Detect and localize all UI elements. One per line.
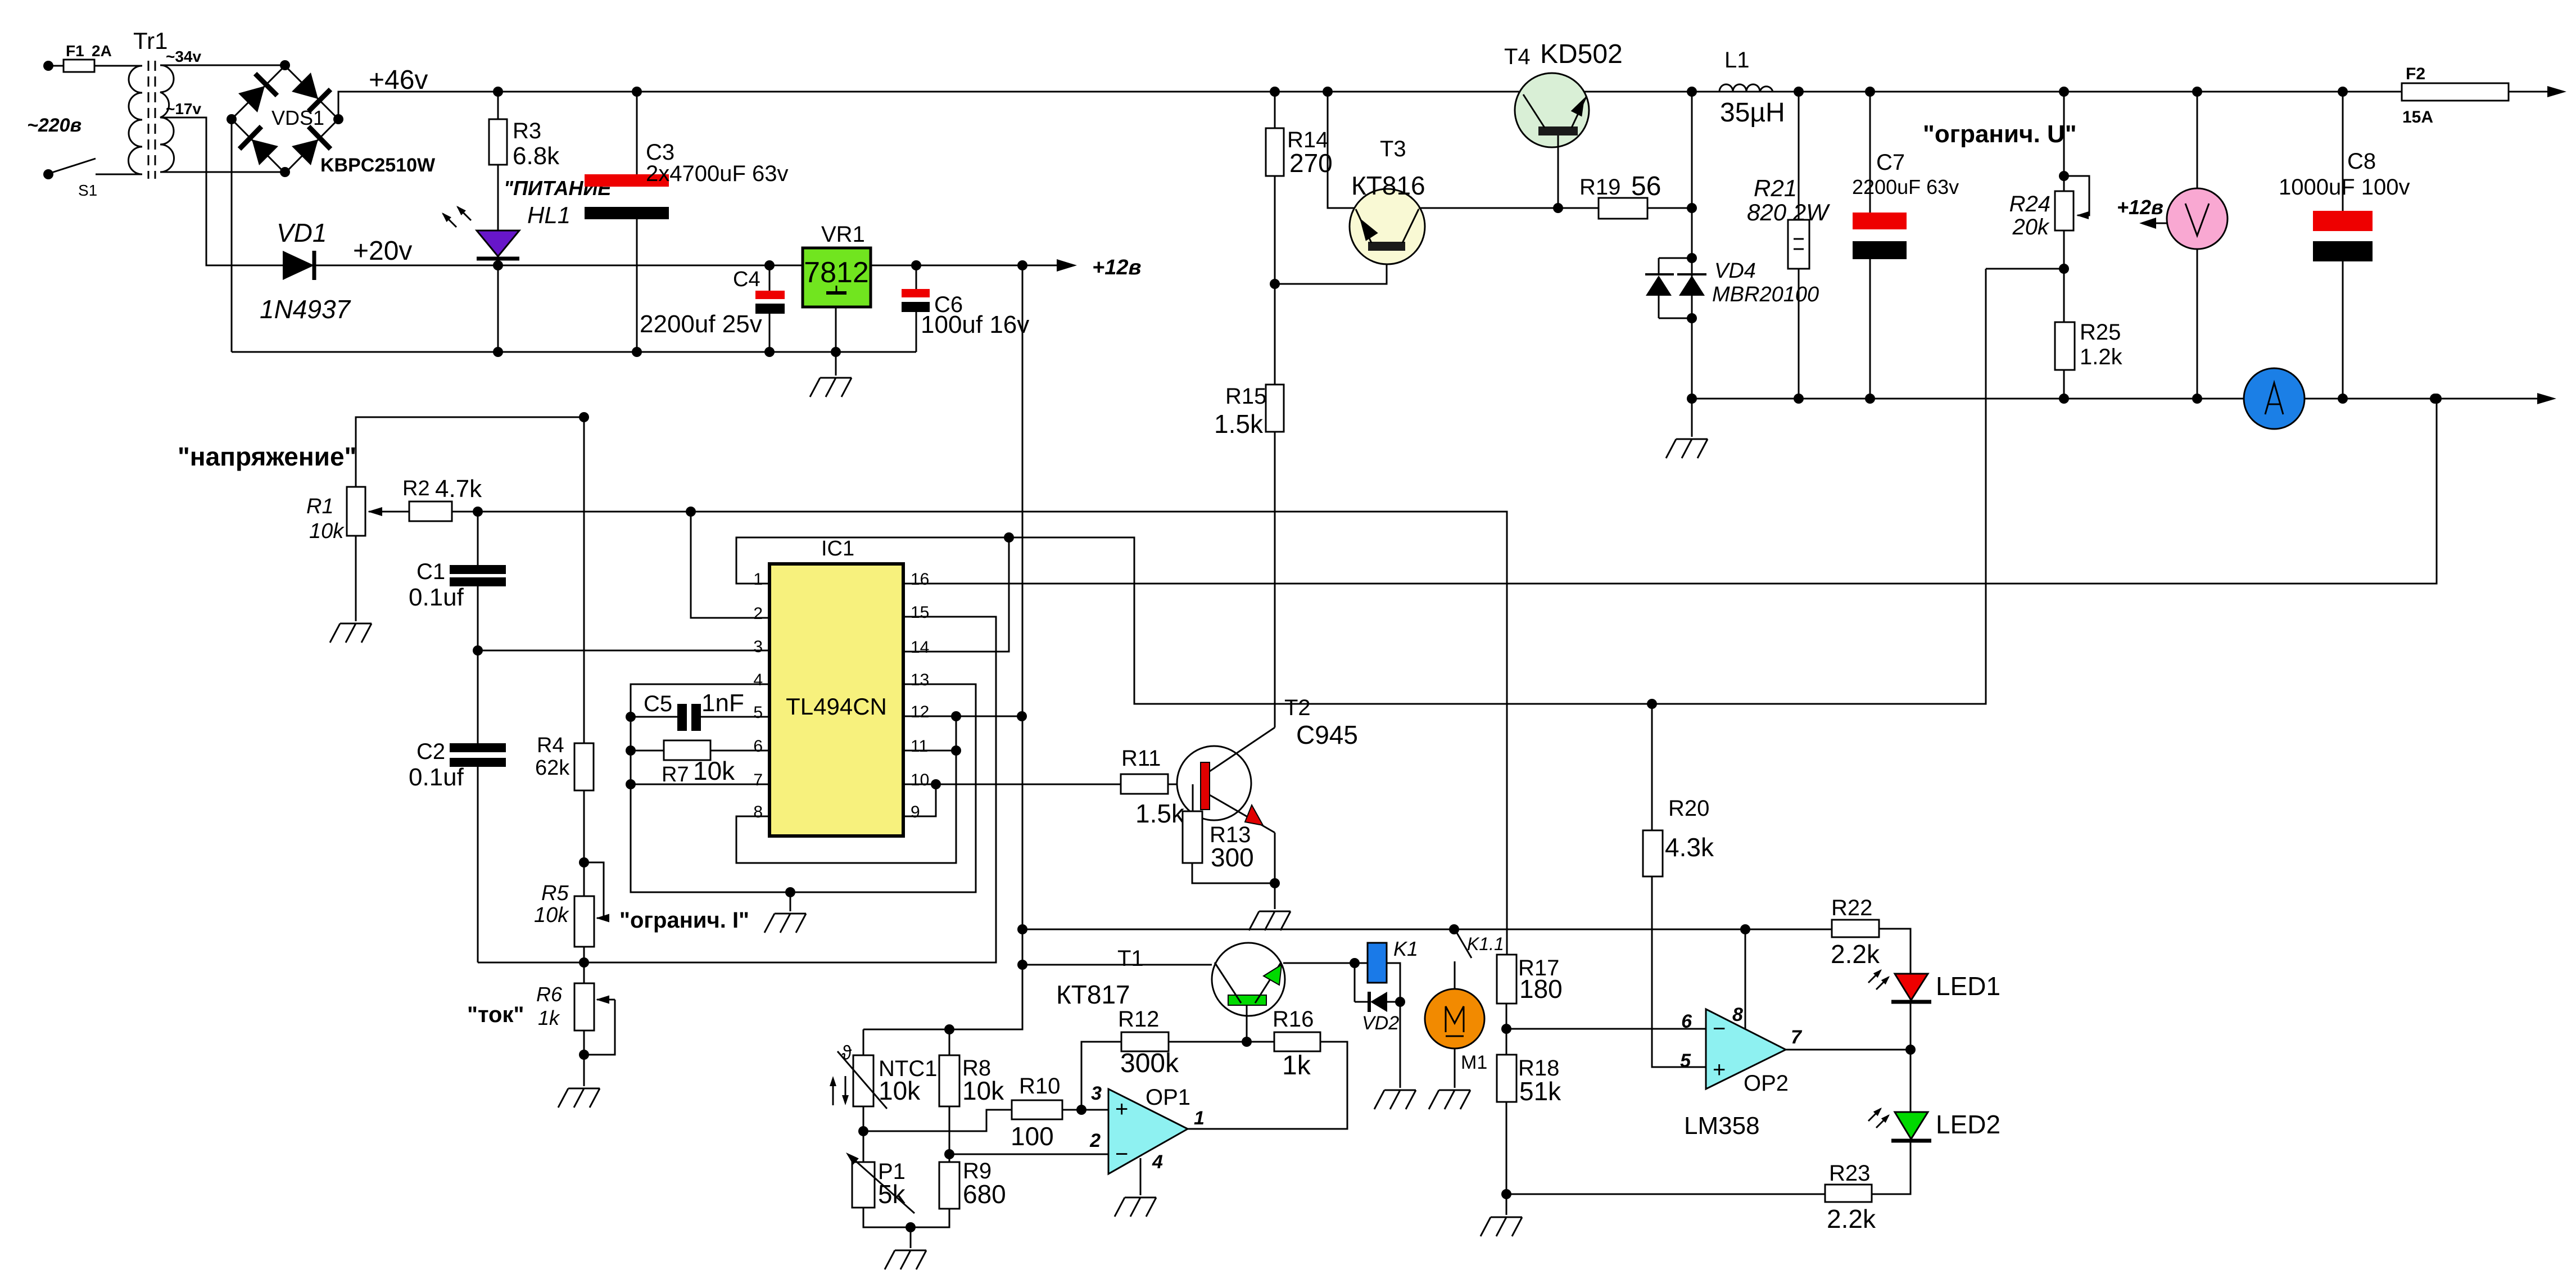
node T1 base junction	[1242, 1037, 1252, 1047]
potentiometer P1 5k	[852, 1162, 875, 1208]
wire op supply line	[1022, 929, 1832, 930]
node +12 bus top	[1017, 260, 1027, 270]
wire P1 bottom	[863, 1208, 949, 1227]
svg-text:300k: 300k	[1120, 1049, 1179, 1078]
node switch node rail	[1687, 87, 1697, 97]
svg-text:Tr1: Tr1	[133, 28, 167, 54]
svg-text:C4: C4	[733, 268, 760, 291]
svg-text:F1: F1	[66, 42, 84, 60]
wire R18 bottom	[1506, 1102, 1507, 1215]
svg-text:2x4700uF 63v: 2x4700uF 63v	[646, 161, 789, 186]
ground R1	[330, 623, 372, 643]
wire R1 top to R4 top	[356, 417, 584, 743]
ground T2	[1274, 883, 1276, 909]
wire V meter bottom	[2197, 249, 2198, 399]
svg-text:КТ816: КТ816	[1351, 171, 1425, 200]
wire NTC junction to R10	[863, 1110, 1012, 1131]
wire minus rail	[1692, 398, 2541, 400]
resistor R4 62k	[574, 743, 594, 790]
svg-text:+20v: +20v	[353, 236, 412, 266]
node VD2 right junction	[1395, 997, 1405, 1007]
wire rail to F2 and output arrow	[1692, 91, 2402, 93]
wire OP1 pin4 ground	[1140, 1158, 1142, 1195]
wire HL1 cathode to +20v line and common	[497, 259, 499, 352]
node VR1 gnd common	[831, 347, 841, 357]
svg-text:1.2k: 1.2k	[2080, 345, 2123, 369]
node mains input terminal top	[43, 61, 53, 71]
wire R23 to R18 bottom	[1506, 1194, 1825, 1195]
resistor R13 300	[1192, 784, 1194, 811]
svg-text:10: 10	[911, 771, 929, 789]
svg-text:TL494CN: TL494CN	[786, 693, 887, 720]
wire VD1 to VR1 input (+20v line)	[233, 265, 283, 266]
svg-text:C2: C2	[416, 739, 445, 764]
svg-text:14: 14	[911, 638, 929, 657]
fuse F1	[64, 60, 94, 72]
svg-text:R4: R4	[537, 734, 564, 757]
transistor T1 KT817	[1056, 943, 1285, 1016]
capacitor C4 2200uf 25v	[769, 265, 771, 291]
relay coil K1	[1368, 943, 1387, 983]
wire pin4 to box left edge	[631, 684, 976, 892]
svg-text:"огранич. I": "огранич. I"	[619, 908, 749, 933]
transistor T2 C945	[1177, 695, 1358, 843]
svg-text:13: 13	[911, 671, 929, 689]
wire R12 to T1 base	[1169, 1041, 1274, 1043]
bridge rectifier VDS1 KBPC2510W	[232, 66, 436, 176]
wire secondary 17v tap	[160, 117, 233, 265]
wire R2 right to voltage feedback line	[452, 511, 478, 513]
node +12 branch opamp supply	[1017, 924, 1027, 934]
resistor R17 180	[1497, 955, 1516, 1004]
node pin6 tap	[626, 745, 636, 756]
node C1 bottom pin3 junction	[473, 645, 483, 656]
wire R17 R18 junction	[1506, 1004, 1507, 1055]
svg-text:−: −	[1713, 1016, 1726, 1041]
transistor T4 KD502	[1504, 39, 1623, 147]
wire R10 to OP1 pin3	[1062, 1109, 1108, 1111]
wire LED1 to output node	[1910, 1002, 1912, 1050]
wire +12v bus vertical	[877, 265, 1022, 1029]
svg-text:C945: C945	[1296, 720, 1358, 749]
node R17 R18 junction	[1501, 1024, 1511, 1034]
svg-text:4: 4	[1152, 1151, 1163, 1173]
wire divider to OP2 pin6	[1506, 1028, 1706, 1030]
svg-text:R2: R2	[402, 477, 430, 500]
ammeter A	[2244, 368, 2305, 429]
wire R5 wiper loop	[584, 862, 604, 918]
svg-text:8: 8	[753, 803, 763, 821]
svg-text:"напряжение": "напряжение"	[178, 442, 356, 471]
wire R13 bottom to T2 emitter	[1192, 863, 1275, 883]
wire output node to LED2	[1910, 1050, 1912, 1112]
svg-text:R5: R5	[541, 882, 569, 905]
wire R16 to OP1 output	[1188, 1042, 1347, 1129]
svg-text:4.3k: 4.3k	[1665, 833, 1714, 862]
node T2 emitter junction	[1270, 878, 1280, 888]
node T4 base node	[1553, 203, 1563, 213]
ground OP1	[1115, 1197, 1156, 1217]
wire NTC R8 top feed	[863, 1029, 1022, 1031]
capacitor C6 100uf 16v	[916, 265, 917, 289]
svg-text:1N4937: 1N4937	[260, 295, 351, 324]
svg-text:4.7k: 4.7k	[435, 475, 482, 503]
svg-text:2: 2	[753, 604, 763, 623]
capacitor C7 2200uF 63v	[1869, 92, 1871, 213]
wire NTC1 bottom	[863, 1106, 864, 1162]
wire R22 to LED1	[1879, 929, 1911, 974]
wire R6 wiper loop	[584, 1000, 615, 1055]
resistor R15 1.5k	[1266, 385, 1284, 432]
svg-text:R23: R23	[1829, 1161, 1870, 1186]
svg-text:2.2k: 2.2k	[1827, 1204, 1876, 1233]
wire T3 emitter riser	[1328, 92, 1355, 208]
resistor R9 680	[939, 1162, 959, 1209]
svg-text:16: 16	[911, 570, 929, 589]
capacitor C8 1000uF 100v	[2342, 92, 2344, 211]
node C8 minus	[2338, 394, 2348, 404]
wire pin1 pin14 feedback loop via IC1 box	[736, 269, 1986, 704]
resistor R25 1.2k	[2055, 322, 2075, 370]
wire mains top to fuse	[48, 65, 64, 67]
node HL1 +20v junction	[493, 260, 503, 270]
wire R4 to R5	[583, 790, 585, 896]
ground IC1	[790, 892, 791, 911]
diode VD2	[1354, 963, 1356, 1002]
node pin10 tie	[931, 779, 941, 789]
svg-text:R25: R25	[2080, 320, 2121, 345]
svg-text:KBPC2510W: KBPC2510W	[320, 155, 436, 176]
node rail R14 top	[1270, 87, 1280, 97]
svg-text:T4: T4	[1504, 44, 1531, 69]
svg-text:T2: T2	[1284, 695, 1311, 720]
node R5 tap top	[579, 857, 589, 867]
node rail C7 top	[1865, 87, 1875, 97]
node R24 wiper tie	[2059, 171, 2069, 181]
wire VD2 to ground	[1400, 1002, 1401, 1088]
wire T4 emitter to output node	[1584, 91, 1692, 93]
resistor R18 51k	[1497, 1055, 1516, 1102]
capacitor C3 2x4700uF 63v	[636, 92, 638, 174]
svg-text:KD502: KD502	[1540, 39, 1623, 69]
svg-text:10k: 10k	[962, 1076, 1004, 1105]
ground R18	[1481, 1217, 1522, 1236]
ground VR1	[810, 378, 852, 397]
op-amp OP1	[1108, 1089, 1188, 1174]
svg-text:+46v: +46v	[369, 65, 428, 95]
LED HL1	[497, 165, 499, 231]
node rail R24 top	[2059, 87, 2069, 97]
svg-text:9: 9	[911, 803, 920, 821]
svg-text:7: 7	[1791, 1027, 1803, 1048]
wire pin11	[903, 750, 956, 752]
wire R1 bottom to ground	[355, 536, 357, 621]
wire V meter +12 arrow	[2143, 223, 2167, 224]
wire C2 bottom to tok node	[478, 962, 584, 964]
svg-text:1000uF 100v: 1000uF 100v	[2279, 175, 2410, 200]
svg-text:0.1uf: 0.1uf	[409, 763, 464, 791]
svg-text:6: 6	[753, 737, 763, 756]
svg-text:R11: R11	[1121, 746, 1161, 771]
node minus rail ground	[1687, 394, 1697, 404]
svg-text:VD2: VD2	[1362, 1013, 1399, 1034]
svg-text:11: 11	[911, 737, 928, 756]
svg-text:R21: R21	[1754, 175, 1797, 201]
svg-text:"огранич. U": "огранич. U"	[1923, 120, 2077, 148]
svg-text:10k: 10k	[309, 519, 345, 543]
svg-text:R16: R16	[1273, 1007, 1314, 1032]
wire R20 bottom to OP2 pin5	[1652, 876, 1706, 1067]
svg-text:−: −	[1115, 1142, 1128, 1167]
op-amp OP2 LM358	[1706, 1009, 1786, 1089]
svg-text:0.1uf: 0.1uf	[409, 584, 464, 611]
potentiometer R24 20k	[2055, 191, 2074, 231]
wire T1 collector line	[1022, 964, 1212, 966]
wire pin12 to +12 bus	[903, 716, 1022, 717]
svg-text:180: 180	[1519, 974, 1563, 1004]
svg-text:1.5k: 1.5k	[1214, 409, 1264, 439]
wire M1 to ground	[1454, 1049, 1456, 1088]
svg-text:R22: R22	[1831, 896, 1872, 920]
svg-text:K1: K1	[1393, 937, 1418, 960]
svg-text:10k: 10k	[879, 1076, 921, 1105]
svg-text:S1: S1	[78, 182, 97, 199]
wire T2 emitter to ground	[1274, 843, 1276, 883]
node T2 base junction	[1188, 779, 1198, 789]
svg-text:R19: R19	[1579, 175, 1620, 200]
svg-text:3: 3	[1091, 1083, 1102, 1104]
diode VD4 MBR20100 dual schottky	[1645, 253, 1819, 318]
potentiometer R5 10k	[574, 896, 594, 947]
node C4 common	[764, 347, 775, 357]
wire bridge left vertex down to common rail	[231, 119, 233, 352]
resistor R23 2.2k	[1825, 1185, 1872, 1202]
svg-text:15: 15	[911, 603, 929, 622]
svg-text:VR1: VR1	[821, 222, 865, 247]
diode VD1 1N4937	[283, 251, 314, 280]
svg-text:R6: R6	[536, 983, 563, 1006]
wire switch to transformer primary bottom	[96, 174, 142, 175]
wire voltage feedback line to R17 column	[478, 512, 1507, 955]
transistor T3 KT816	[1350, 137, 1425, 264]
node pin11 tie	[951, 745, 961, 756]
node pin16 minus rail	[2432, 394, 2442, 404]
node C7 minus	[1865, 394, 1875, 404]
svg-text:100: 100	[1011, 1122, 1054, 1151]
resistor R20 4.3k	[1651, 704, 1653, 830]
svg-text:L1: L1	[1724, 48, 1750, 73]
svg-text:R24: R24	[2009, 192, 2050, 216]
svg-text:C1: C1	[416, 559, 445, 584]
svg-text:1k: 1k	[538, 1006, 560, 1029]
resistor R21 820 2W	[1798, 92, 1800, 220]
node R8 top tap	[944, 1024, 954, 1034]
svg-text:MBR20100: MBR20100	[1712, 283, 1819, 306]
svg-text:2200uF 63v: 2200uF 63v	[1852, 175, 1959, 198]
svg-text:T3: T3	[1380, 137, 1406, 161]
wire R24 wiper loop	[2064, 176, 2089, 215]
node bridge right	[333, 114, 343, 124]
node bridge left	[227, 114, 237, 124]
resistor R7 10k	[631, 750, 664, 752]
wire R14 to R15	[1274, 176, 1276, 385]
svg-text:~34v: ~34v	[166, 48, 201, 65]
svg-text:4: 4	[753, 671, 763, 689]
wire VD4 to minus rail	[1691, 258, 1693, 399]
wire T3 collector to T4 base node	[1419, 207, 1558, 209]
motor M1	[1454, 961, 1456, 989]
svg-text:LED1: LED1	[1936, 971, 2000, 1001]
svg-text:6.8k: 6.8k	[513, 142, 560, 170]
svg-text:10k: 10k	[693, 756, 735, 785]
wire secondary bottom to bridge bottom	[160, 171, 285, 173]
node VD4 bottom	[1687, 313, 1697, 323]
wire T1 base stem	[1246, 1005, 1248, 1042]
wire K1 right	[1387, 963, 1400, 1002]
wire V meter top	[2197, 92, 2198, 188]
wire secondary 34v to bridge top	[160, 65, 285, 66]
svg-text:35µH: 35µH	[1720, 98, 1785, 128]
wire pin15 to current set node	[584, 617, 996, 962]
node C6 top	[911, 260, 921, 270]
svg-text:270: 270	[1289, 148, 1333, 178]
node pin14 top	[1004, 532, 1014, 543]
wire VR1 ground to common	[835, 307, 837, 376]
node pin5 tap	[626, 712, 636, 722]
node R8 R9 junction	[944, 1149, 954, 1159]
node pin7 tap	[626, 779, 636, 789]
svg-text:+: +	[1713, 1057, 1726, 1082]
node T3 base junction	[1270, 279, 1280, 289]
wire pin10 to R11	[903, 784, 1121, 785]
op-amp U IC1 TL494CN chip body	[769, 564, 903, 836]
switch S1	[52, 159, 96, 173]
svg-text:VD1: VD1	[277, 218, 327, 247]
node R25 minus	[2059, 394, 2069, 404]
capacitor C2 0.1uf	[477, 650, 479, 743]
wire LED2 to R23 line	[1872, 1141, 1911, 1194]
svg-text:K1.1: K1.1	[1467, 934, 1504, 954]
svg-text:+12в: +12в	[2117, 196, 2163, 219]
node R1 R4 net corner	[579, 412, 589, 422]
wire U-limit feedback left	[1986, 268, 2064, 270]
wire pin3 line	[478, 650, 769, 652]
resistor R8 10k	[949, 1029, 950, 1055]
wire OP2 output	[1786, 1049, 1911, 1051]
wire pin2 riser	[691, 512, 769, 618]
svg-text:1.5k: 1.5k	[1135, 799, 1185, 828]
svg-text:M1: M1	[1461, 1052, 1487, 1073]
wire pin14 riser	[903, 537, 1009, 652]
svg-text:R1: R1	[306, 495, 334, 518]
resistor R16 1k	[1274, 1032, 1320, 1051]
node R19 right	[1687, 203, 1697, 213]
node OP2 pin8 tap	[1740, 924, 1750, 934]
LED LED2 green	[1895, 1112, 1928, 1139]
wire R6 bottom	[583, 1031, 585, 1086]
svg-text:820 2W: 820 2W	[1747, 199, 1830, 225]
svg-text:R12: R12	[1118, 1007, 1159, 1032]
resistor R22 2.2k	[1832, 920, 1879, 937]
node C4 top	[764, 260, 775, 270]
node IC ground tap	[785, 887, 795, 897]
wire R12 riser	[1081, 1042, 1121, 1110]
svg-text:~220в: ~220в	[27, 115, 82, 136]
wire common rail top-left block	[232, 351, 916, 353]
svg-text:HL1: HL1	[527, 202, 571, 228]
ground R6	[558, 1088, 600, 1108]
svg-text:1k: 1k	[1282, 1051, 1311, 1081]
svg-text:5: 5	[1680, 1050, 1691, 1072]
node R21 minus	[1794, 394, 1804, 404]
wire switch node vertical	[1691, 92, 1693, 269]
svg-text:20k: 20k	[2012, 215, 2050, 239]
wire pin16 current sense line	[903, 399, 2437, 584]
node rail C8 top	[2338, 87, 2348, 97]
inductor L1 35uH	[1719, 84, 1773, 92]
svg-text:+: +	[1115, 1097, 1128, 1122]
svg-text:62k: 62k	[535, 756, 570, 780]
svg-text:C5: C5	[644, 692, 672, 716]
node R12 tap	[1076, 1105, 1086, 1115]
thermistor NTC1 10k	[863, 1029, 864, 1055]
svg-text:56: 56	[1631, 171, 1661, 201]
wire R8 R9 junction to OP1 pin2	[949, 1154, 1108, 1155]
svg-text:VDS1: VDS1	[271, 106, 324, 129]
node +12 branch T1 collector	[1017, 960, 1027, 970]
svg-text:7812: 7812	[804, 256, 869, 289]
svg-text:5: 5	[753, 703, 763, 722]
svg-text:6: 6	[1681, 1011, 1692, 1032]
wire R24 top	[2063, 92, 2065, 191]
svg-text:IC1: IC1	[821, 537, 854, 561]
svg-text:F2: F2	[2406, 65, 2425, 83]
svg-text:3: 3	[753, 638, 763, 656]
svg-text:2200uf 25v: 2200uf 25v	[640, 310, 762, 338]
ground minus rail	[1691, 399, 1693, 437]
svg-text:51k: 51k	[1519, 1077, 1561, 1106]
capacitor C5 1nF	[631, 716, 677, 718]
svg-text:8: 8	[1732, 1004, 1743, 1025]
svg-text:КТ817: КТ817	[1056, 980, 1130, 1009]
node C3 common junction	[632, 347, 642, 357]
wire R24 bottom	[2063, 231, 2065, 322]
resistor R19 56	[1558, 207, 1599, 209]
node OP2 output LED junction	[1905, 1045, 1916, 1055]
svg-text:2: 2	[1089, 1130, 1101, 1151]
wire OP2 pin8 supply	[1745, 929, 1746, 1029]
wire R8 R9 junction	[949, 1106, 950, 1162]
wire pin8 pin11 pin12 tie	[736, 716, 956, 863]
node P1 R9 ground junction	[906, 1222, 916, 1232]
wire T3 base	[1275, 251, 1387, 284]
potentiometer R1 10k	[347, 487, 365, 536]
resistor R11 1.5k	[1121, 774, 1168, 794]
wire bridge right vertex to +46v rail	[338, 92, 1520, 119]
node NTC P1 junction	[858, 1126, 868, 1136]
svg-text:R7: R7	[662, 763, 689, 787]
wire VR1 output +12v	[871, 265, 1057, 266]
svg-text:1: 1	[1194, 1108, 1205, 1129]
node R2 C1 junction	[473, 507, 483, 517]
wire pin9 pin10 tie	[903, 784, 936, 816]
node R20 tap on pin1 line	[1647, 699, 1657, 709]
node minus rail feedback tap	[2430, 394, 2440, 404]
node rail V meter top	[2192, 87, 2202, 97]
svg-text:R20: R20	[1668, 796, 1709, 821]
svg-text:12: 12	[911, 703, 929, 721]
node R18 bottom junction	[1501, 1189, 1511, 1199]
